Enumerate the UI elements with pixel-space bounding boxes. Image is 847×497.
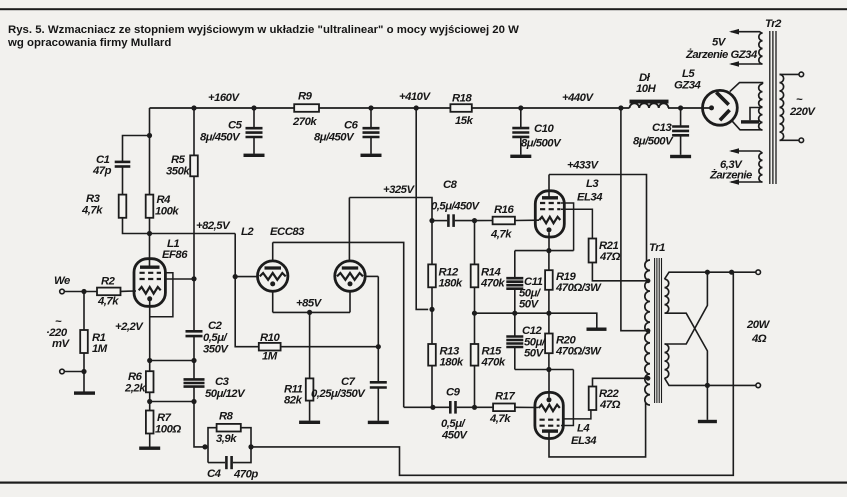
capacitor C11 (506, 278, 523, 289)
ground output (698, 420, 717, 423)
svg-text:C13: C13 (652, 122, 672, 134)
svg-text:2,2k: 2,2k (124, 383, 146, 395)
Tr2 5V winding (759, 33, 763, 64)
svg-text:+82,5V: +82,5V (196, 220, 231, 232)
junction UL tap upper (646, 278, 651, 283)
junction anode node +82.5V (147, 231, 152, 236)
capacitor C10 (512, 128, 529, 137)
wire 6.3V top lead (731, 151, 763, 153)
wire C11 to C12 (514, 289, 516, 336)
svg-text:R3: R3 (86, 193, 101, 205)
resistor R13 (428, 344, 436, 366)
wire to C8 (432, 220, 447, 222)
svg-text:R7: R7 (157, 412, 172, 424)
wire secondary cross lower (665, 313, 708, 420)
wire R1 to ground (83, 353, 85, 392)
Tr1 primary winding (645, 260, 650, 405)
cathode dot L3 (547, 227, 552, 232)
wire R16 to L3 grid (515, 219, 539, 221)
junction input-R1 (81, 289, 86, 294)
wire secondary to output bottom (665, 378, 756, 385)
wire grid2 lead (365, 275, 378, 277)
wire 5V bottom lead (731, 63, 763, 65)
resistor R5 (190, 155, 198, 176)
junction center tap (646, 328, 651, 333)
svg-text:C2: C2 (208, 320, 223, 332)
svg-text:R8: R8 (219, 411, 234, 423)
svg-text:47p: 47p (92, 165, 112, 177)
wire R21 to UL tap (592, 263, 648, 281)
svg-text:L3: L3 (586, 178, 599, 190)
svg-text:470Ω/3W: 470Ω/3W (555, 346, 602, 358)
junction output top-feedback (729, 270, 734, 275)
anode bar L4 (542, 429, 558, 432)
anode plate lower L5 (720, 110, 730, 120)
wire 6.3V bottom lead (731, 181, 763, 183)
Tr1 secondary upper (665, 279, 669, 313)
grid zigzag L2a (260, 273, 286, 280)
wire cathode L1 down (149, 301, 151, 361)
wire C4 bottom left (208, 462, 225, 464)
capacitor C7 (370, 382, 387, 387)
top border rule (0, 8, 847, 10)
triode L2a envelope (258, 261, 288, 291)
output terminal top (756, 270, 761, 275)
grid g3 L3 (540, 202, 561, 204)
wire to triode1 grid (235, 276, 257, 278)
junction R10-C7-grid2 (376, 344, 381, 349)
svg-text:L4: L4 (577, 423, 590, 435)
choke DL 10H (630, 103, 669, 108)
grid zigzag L2b (337, 273, 363, 280)
ground C10 (510, 155, 531, 158)
junction C2-C3 midpoint (191, 358, 196, 363)
svg-text:8μ/500V: 8μ/500V (633, 136, 674, 148)
svg-text:220V: 220V (789, 106, 816, 118)
ground HV center tap (741, 120, 759, 123)
cathode dot L2b (348, 281, 353, 286)
wire C12 bottom (514, 347, 516, 370)
wire g3 L3 to cathode loop (561, 203, 574, 251)
junction R6-R7 feedback (147, 399, 152, 404)
wire R8 box right (233, 428, 251, 463)
wire secondary cross upper (665, 272, 708, 344)
wire cathode to C2C3 mid (150, 360, 194, 362)
capacitor C4 (226, 456, 231, 469)
svg-text:4,7k: 4,7k (97, 296, 119, 308)
anode bar L2b (342, 266, 358, 269)
wire C2 to C3 (193, 336, 195, 379)
wire C8 to R14 node (455, 220, 475, 222)
wire secondary to output top (665, 272, 756, 279)
svg-text:8μ/450V: 8μ/450V (314, 132, 355, 144)
resistor R15 (471, 344, 479, 366)
svg-text:C6: C6 (344, 120, 359, 132)
junction rail-C6 (368, 105, 373, 110)
cathode dot L2a (270, 281, 275, 286)
svg-text:8μ/500V: 8μ/500V (521, 138, 562, 150)
junction C8 right node (472, 218, 477, 223)
svg-text:15k: 15k (455, 115, 474, 127)
junction R8 box left (202, 444, 207, 449)
capacitor C5 (246, 128, 263, 137)
output terminal bottom (756, 383, 761, 388)
wire R12 to junction (431, 287, 433, 309)
wire R13 to C9 line (431, 366, 433, 408)
svg-text:~: ~ (796, 94, 803, 106)
svg-text:R2: R2 (101, 276, 116, 288)
capacitor C3 (184, 379, 205, 386)
resistor R22 (589, 387, 597, 411)
junction R19-R20 (546, 311, 551, 316)
wire C1 to R3 (122, 167, 124, 195)
junction rail-R5 (191, 105, 196, 110)
svg-text:We: We (54, 275, 70, 287)
resistor R18 (450, 104, 471, 112)
svg-text:C7: C7 (341, 376, 356, 388)
capacitor C2 (186, 331, 203, 336)
junction R14-R15 mid (472, 311, 477, 316)
wire anode2 +325V to C8 (349, 198, 432, 221)
wire choke to rectifier cathode (668, 107, 710, 109)
resistor R19 (545, 270, 553, 290)
wire cathode L2b (349, 291, 351, 312)
arrow 5V bottom (729, 61, 739, 67)
junction C8 left node (429, 218, 434, 223)
input terminal top (60, 289, 65, 294)
wire +160V rail left (150, 107, 295, 109)
svg-text:270k: 270k (292, 116, 317, 128)
svg-text:470k: 470k (480, 278, 505, 290)
svg-text:Tr1: Tr1 (649, 242, 665, 254)
resistor R21 (589, 239, 597, 263)
svg-text:50μ/12V: 50μ/12V (205, 388, 246, 400)
junction +85V (307, 310, 312, 315)
capacitor C1 (115, 162, 131, 167)
wire R8 box left (208, 428, 217, 463)
junction R15-grid line (472, 405, 477, 410)
anode plate upper L5 (716, 92, 728, 104)
wire +85V to R11 (309, 312, 311, 378)
svg-text:4Ω: 4Ω (751, 333, 767, 345)
wire mid bias line (475, 313, 597, 328)
grid g1 zigzag L4 (539, 405, 560, 411)
svg-text:EF86: EF86 (162, 249, 188, 261)
resistor R9 (294, 104, 319, 112)
junction output top-cross (705, 270, 710, 275)
resistor R14 (471, 264, 479, 287)
resistor R12 (428, 264, 436, 287)
wire feedback node to C3 bottom (150, 401, 194, 403)
svg-text:C11: C11 (524, 276, 543, 288)
ground C5 (244, 154, 265, 157)
junction R8 box right (248, 444, 253, 449)
junction rail-C5 (251, 105, 256, 110)
wire grid2 riser (377, 276, 379, 346)
resistor R17 (493, 404, 515, 412)
svg-text:3,9k: 3,9k (216, 433, 237, 445)
arrow 6.3V top (729, 148, 739, 154)
svg-text:180k: 180k (440, 357, 464, 369)
wire to R12 (431, 221, 433, 265)
wire +410V feed to R12/R13 (416, 108, 428, 309)
resistor R6 (146, 371, 154, 392)
svg-text:+2,2V: +2,2V (115, 321, 144, 333)
svg-text:Żarzenie: Żarzenie (709, 169, 752, 182)
grid g2 L1 (140, 278, 162, 280)
wire to R13 (431, 309, 433, 344)
wire C9 to R17 (457, 406, 493, 408)
cathode dot L1 (147, 296, 152, 301)
wire C13 to ground (680, 135, 682, 155)
capacitor C12 (506, 337, 523, 348)
junction L3 cathode node (546, 248, 551, 253)
wire 220V top (780, 73, 800, 75)
ground C13 (670, 155, 691, 158)
grid g1 zigzag L1 (139, 287, 161, 294)
terminal 220V top (799, 72, 804, 77)
wire to R20 (548, 313, 550, 333)
wire anode lead L2a (272, 242, 274, 261)
ground C6 (361, 154, 382, 157)
wire C3 down to R8 box (194, 387, 208, 447)
bottom border rule (0, 482, 847, 484)
svg-text:C5: C5 (228, 120, 243, 132)
svg-text:+85V: +85V (296, 298, 323, 310)
junction rail-C10 (518, 105, 523, 110)
junction C3 bottom (191, 399, 196, 404)
svg-text:C3: C3 (215, 376, 230, 388)
wire to R19 (548, 251, 550, 271)
wire R2 to EF86 grid (121, 290, 137, 292)
wire L3 cathode node line (515, 250, 574, 252)
capacitor C6 (363, 128, 380, 137)
grid g2 L3 (540, 208, 561, 210)
wire 5V top lead (731, 32, 763, 34)
svg-text:82k: 82k (284, 395, 303, 407)
arrow 6.3V bottom (729, 179, 739, 185)
triode L2b envelope (335, 261, 365, 291)
svg-text:R18: R18 (452, 93, 472, 105)
resistor R2 (97, 288, 121, 296)
svg-text:R16: R16 (494, 204, 514, 216)
wire g3 to cathode loop (150, 273, 173, 317)
svg-text:C4: C4 (207, 468, 222, 480)
wire cathode lead L4 (548, 370, 550, 398)
svg-text:5V: 5V (712, 37, 727, 49)
wire anode lead L1 (149, 234, 151, 267)
svg-text:GZ34: GZ34 (674, 80, 701, 92)
wire anode L4 to Tr1 bottom (549, 403, 646, 457)
ground input (74, 391, 95, 394)
wire global feedback (251, 272, 733, 475)
svg-text:R5: R5 (171, 154, 186, 166)
wire C9 line left (404, 406, 449, 408)
grid g3 L4 (540, 425, 560, 427)
choke DL core bar (630, 100, 669, 104)
svg-text:R10: R10 (260, 332, 280, 344)
wire cathode L3 down (548, 232, 550, 250)
svg-text:+410V: +410V (399, 91, 431, 103)
wire R10 to C7 node (281, 346, 379, 348)
wire C10 to ground (520, 137, 522, 155)
grid g2 L4 (540, 419, 560, 421)
capacitor C8 (448, 214, 453, 227)
wire rail to R5 (193, 108, 195, 155)
svg-text:450V: 450V (441, 430, 468, 442)
ground C7 (368, 421, 389, 424)
svg-text:0,5μ/: 0,5μ/ (441, 418, 467, 430)
svg-text:R4: R4 (157, 194, 172, 206)
svg-text:L5: L5 (682, 68, 695, 80)
svg-text:R17: R17 (495, 391, 515, 403)
resistor R10 (259, 343, 281, 351)
junction UL tap lower (646, 376, 651, 381)
Tr2 HV winding (759, 84, 763, 130)
svg-text:0,25μ/350V: 0,25μ/350V (311, 388, 366, 400)
Tr1 secondary lower (665, 344, 669, 378)
resistor R8 (217, 424, 241, 432)
wire to R1 (83, 292, 85, 331)
svg-text:Żarzenie GZ34: Żarzenie GZ34 (685, 48, 758, 61)
svg-text:mV: mV (52, 338, 71, 350)
wire anode upper to HV winding (730, 83, 763, 92)
junction cathode-R6 (147, 358, 152, 363)
svg-text:180k: 180k (439, 278, 463, 290)
wire C13 stem (680, 108, 682, 126)
svg-text:470k: 470k (481, 357, 506, 369)
ground mid bias (587, 328, 607, 331)
svg-text:350k: 350k (166, 166, 190, 178)
wire R19 to mid (548, 290, 550, 313)
svg-text:wg opracowania firmy Mullard: wg opracowania firmy Mullard (7, 37, 171, 49)
junction R1-terminal (81, 369, 86, 374)
junction output bottom-cross (705, 383, 710, 388)
resistor R11 (306, 378, 314, 400)
wire HV center tap (750, 108, 763, 121)
junction R12-R13 B+ (429, 307, 434, 312)
wire +82.5V node line (150, 233, 236, 235)
wire g2 L3 to R21 (561, 209, 592, 238)
capacitor C13 (672, 127, 689, 136)
wire anode lead L2b (348, 198, 350, 262)
svg-text:R9: R9 (298, 91, 313, 103)
wire C5 stem (253, 108, 255, 128)
resistor R7 (146, 411, 154, 434)
wire anode lead L3 (548, 175, 550, 198)
resistor R4 (146, 195, 154, 218)
wire C7 to ground (377, 388, 379, 421)
wire anode node to grid1 and R10 (235, 234, 259, 347)
junction C11-C12 mid (512, 311, 517, 316)
arrow 5V top (729, 29, 739, 35)
Tr2 220V winding (780, 74, 784, 140)
anode bar L2a (265, 266, 282, 269)
svg-text:4,7k: 4,7k (81, 205, 103, 217)
wire to R16 (475, 220, 493, 222)
svg-text:C8: C8 (443, 179, 458, 191)
junction L4 cathode node (546, 367, 551, 372)
wire rail R9 to choke (319, 107, 630, 109)
svg-text:1M: 1M (92, 343, 108, 355)
tube L4 EL34 envelope (535, 392, 563, 438)
wire R14 to mid (474, 287, 476, 313)
wire R15 to C9 line (474, 366, 476, 408)
svg-text:+160V: +160V (208, 92, 240, 104)
svg-text:10H: 10H (636, 83, 657, 95)
ground R7 (139, 447, 160, 450)
wire g2 L4 to R22 (563, 410, 591, 419)
wire C10 stem (520, 108, 522, 127)
grid g1 zigzag L3 (539, 217, 560, 223)
wire C6 to ground (370, 137, 372, 154)
wire L4 cathode node line (515, 369, 574, 371)
svg-text:0,5μ/450V: 0,5μ/450V (431, 201, 481, 213)
svg-text:100k: 100k (155, 206, 179, 218)
wire R17 to L4 grid (515, 406, 539, 408)
wire anode1 to C9 line (273, 242, 404, 407)
svg-text:EL34: EL34 (571, 435, 597, 447)
wire R11 to ground (309, 401, 311, 421)
wire cathode L2a (272, 291, 274, 312)
junction EF86 g2 (191, 276, 196, 281)
svg-text:C10: C10 (534, 123, 554, 135)
wire +440V to center tap (621, 108, 648, 331)
ground R11 (299, 421, 320, 424)
svg-text:ECC83: ECC83 (270, 226, 305, 238)
wire R3 to anode node (123, 218, 150, 234)
capacitor C9 (450, 401, 455, 414)
svg-text:350V: 350V (203, 344, 229, 356)
input terminal bottom (60, 369, 65, 374)
wire to R6 (149, 361, 151, 372)
tube L5 GZ34 envelope (703, 90, 738, 125)
svg-text:C9: C9 (446, 387, 461, 399)
wire g3 L4 to cathode loop (561, 370, 573, 426)
Tr2 core (770, 31, 776, 184)
wire input to R2 (64, 291, 97, 293)
junction C1 branch (147, 133, 152, 138)
junction rail +440V feed (618, 105, 623, 110)
resistor R3 (119, 195, 127, 218)
wire R6 to R7 (149, 392, 151, 410)
svg-text:100Ω: 100Ω (155, 424, 181, 436)
wire rail corner down to R4 (149, 108, 151, 195)
svg-text:470Ω/3W: 470Ω/3W (555, 282, 602, 294)
wire C11 top (514, 251, 516, 278)
junction rail-C13 (678, 105, 683, 110)
junction rail +410 down (414, 105, 419, 110)
wire 220V bottom (780, 139, 800, 141)
wire C6 stem (370, 108, 372, 128)
grid g3 L1 (140, 272, 162, 274)
tube L1 EF86 envelope (134, 259, 165, 307)
svg-text:+325V: +325V (383, 184, 415, 196)
terminal 220V bottom (799, 138, 804, 143)
svg-text:R6: R6 (128, 371, 143, 383)
wire lower terminal (64, 371, 84, 373)
wire C7 stem (377, 347, 379, 382)
svg-text:4,7k: 4,7k (489, 413, 511, 425)
wire cathode bus +85V (273, 311, 350, 313)
svg-text:47Ω: 47Ω (599, 399, 621, 411)
cathode dot L5 (709, 105, 714, 110)
svg-text:Tr2: Tr2 (765, 18, 782, 30)
cathode dot L4 (547, 397, 552, 402)
svg-text:+440V: +440V (562, 92, 594, 104)
wire anode L3 to Tr1 top (549, 175, 647, 262)
resistor R20 (545, 334, 553, 354)
